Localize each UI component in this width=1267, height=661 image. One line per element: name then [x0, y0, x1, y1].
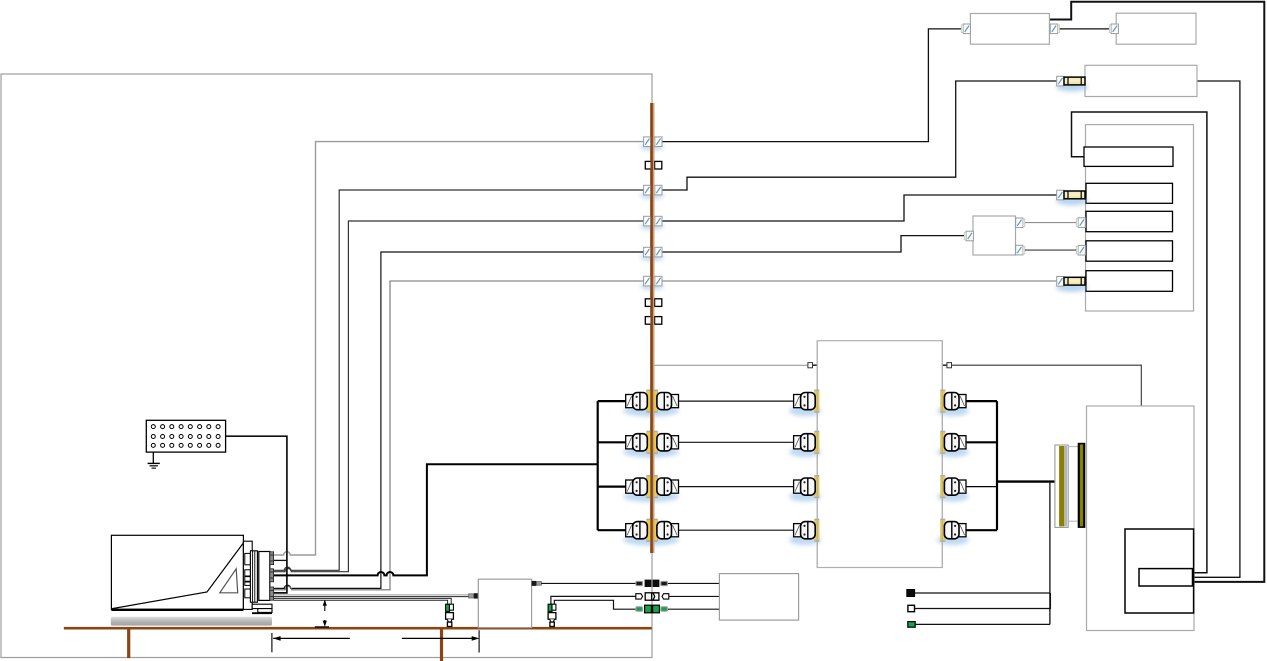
mount base foot line — [252, 612, 272, 614]
connector splitter right bottom — [1016, 245, 1025, 255]
device box D2 — [1116, 13, 1196, 44]
wire legend green — [915, 623, 1050, 625]
floor post right — [440, 630, 443, 661]
feed plug bottom — [270, 587, 274, 600]
battery right plug row4 — [937, 519, 969, 545]
cabinet inner black box — [1125, 529, 1194, 613]
connector sense right — [942, 363, 951, 368]
pump box A — [478, 579, 531, 627]
connector sense left — [808, 363, 817, 368]
wire battery row4 link — [679, 529, 793, 531]
connector D3 yellow plug — [1057, 76, 1085, 86]
connector rack row4 — [1076, 245, 1085, 255]
edge connector link lines — [1068, 447, 1078, 522]
battery box plug row4 — [789, 519, 821, 545]
wire trunk to machine thick with hops — [274, 464, 598, 575]
ground symbol — [148, 452, 160, 468]
machine base plinth — [111, 617, 272, 626]
wire rack row1 riser — [1072, 112, 1207, 573]
battery bulkhead pair row1 — [623, 390, 679, 417]
inline trio B white — [636, 593, 669, 600]
connector D1 left — [961, 24, 970, 34]
battery right plug row2 — [937, 431, 969, 457]
mount plate — [259, 552, 270, 601]
bulkhead passthrough row4 — [640, 247, 664, 261]
wire D1 to riser right top — [1049, 2, 1264, 582]
legend item black — [907, 590, 915, 597]
connector glow D3 — [1056, 83, 1088, 92]
wire battery row1 link — [679, 400, 793, 402]
battery right plug row3 — [937, 475, 969, 502]
feed plug top — [270, 552, 274, 565]
rack unit row3 — [1086, 211, 1173, 231]
wire stack2 to trio C — [554, 600, 635, 609]
wire box A to trio A — [541, 582, 635, 584]
wire right row3 tap — [967, 486, 998, 488]
wire battery row2 link — [679, 441, 793, 443]
legend item white — [908, 605, 915, 611]
wire bulkhead row5 to rack row5 gray — [660, 280, 1056, 282]
feed plug middle — [270, 569, 274, 582]
signal bundle line 4 — [274, 600, 448, 604]
connector D1 right — [1050, 24, 1059, 34]
wire trio C to box B — [668, 608, 720, 610]
signal bundle line 2 — [274, 596, 469, 598]
battery bulkhead pair row4 — [623, 519, 679, 546]
floor line — [64, 627, 652, 630]
bus taps to battery rows — [598, 401, 627, 530]
battery box plug row1 — [789, 390, 821, 417]
wire pigtail row1 junction to bus — [946, 400, 967, 402]
legend item green — [908, 622, 915, 628]
wire feeder to edge connector — [997, 480, 1062, 482]
wire legend white — [915, 593, 1051, 609]
device box D3 — [1085, 65, 1197, 96]
wire D3 right riser — [1193, 81, 1240, 577]
connector rack row5 yellow plug — [1057, 277, 1085, 287]
wire sense line right to cabinet — [952, 365, 1142, 406]
connector glow rack row5 — [1056, 283, 1088, 292]
mount base steps — [252, 604, 272, 612]
wire bulkhead row3 to rack row2 — [660, 195, 1056, 221]
device box D1 — [970, 14, 1049, 45]
wire pigtail row3 junction to bus — [946, 486, 967, 488]
connector splitter left — [964, 231, 973, 241]
cabinet terminal notch — [1139, 569, 1193, 586]
wire D1 to D2 — [1058, 28, 1110, 30]
machine bottom thick line — [111, 609, 243, 611]
bus taps right rows — [967, 401, 998, 530]
wire splitter to rack row3 gray — [1025, 222, 1076, 224]
battery bulkhead pair row2 — [623, 431, 679, 458]
wire room feed 5 left gray — [274, 281, 644, 590]
legend bus drop — [1049, 482, 1051, 625]
signal bundle line 1 gray — [274, 594, 469, 596]
bulkhead passthrough row3 — [640, 216, 664, 230]
cabinet right gray box — [1087, 406, 1195, 631]
wire terminal strip to machine — [226, 436, 287, 593]
wire bulkhead row2 to device box D3 — [660, 81, 1056, 190]
junction room gray box — [817, 341, 942, 568]
signal bundle line 3 — [274, 598, 452, 604]
wire bulkhead row1 to device box D1 — [660, 29, 961, 142]
wire top plug tie — [274, 559, 287, 561]
connector box A right — [532, 581, 542, 586]
floor post left — [127, 630, 130, 659]
bulkhead spare squares row — [645, 161, 662, 169]
wire sense line left gray — [652, 364, 808, 366]
wire room feed 4 left — [274, 252, 644, 588]
wire pigtail row4 junction to bus — [946, 529, 967, 531]
left battery bus — [597, 401, 599, 530]
battery box plug row3 — [789, 475, 821, 502]
wire room feed 3 left — [274, 221, 644, 572]
connector glow rack row2 — [1056, 197, 1088, 206]
edge connector bar 2 — [1078, 443, 1085, 527]
battery right plug row1 — [937, 390, 969, 417]
wire stack2 to trio B — [551, 596, 636, 604]
terminal strip holes — [151, 425, 220, 448]
bulkhead spare squares row c — [645, 317, 662, 325]
wire room feed 1 left gray — [274, 142, 644, 555]
battery box plug row2 — [789, 431, 821, 457]
junction box edge overlays — [817, 341, 942, 568]
rear panel blocks — [245, 553, 251, 597]
wire battery row3 link — [679, 486, 793, 488]
connector splitter right top — [1016, 218, 1025, 228]
connector D2 left — [1109, 24, 1118, 34]
wire pigtail row2 junction to bus — [946, 441, 967, 443]
rack unit row5 — [1086, 271, 1173, 292]
battery bulkhead pair row3 — [623, 475, 679, 502]
inline trio C green — [635, 605, 667, 613]
inline connector small gray — [469, 593, 479, 598]
span dimension line — [272, 630, 479, 652]
control box B — [719, 574, 798, 621]
wire trio B to box B — [669, 595, 720, 597]
wall bulkhead brown line overlay — [650, 103, 654, 553]
terminal strip panel — [146, 420, 225, 452]
wire room feed 2 left — [274, 190, 644, 570]
machine wedge lines — [112, 543, 243, 609]
inline trio A black — [635, 580, 667, 587]
bulkhead passthrough row5 — [640, 276, 664, 290]
connector rack row2 yellow plug — [1057, 190, 1085, 200]
bulkhead passthrough row2 — [640, 185, 664, 199]
machine inner triangle — [220, 569, 238, 593]
bulkhead spare squares row b — [645, 299, 662, 307]
height dimension arrows — [315, 600, 329, 627]
rack unit row2 — [1086, 183, 1173, 203]
connector rack row3 — [1076, 218, 1085, 228]
rack unit row1 — [1084, 147, 1173, 166]
machine rear panel — [243, 541, 252, 609]
wire legend black — [915, 592, 1050, 594]
rack cabinet outline — [1086, 125, 1194, 311]
splitter box — [973, 216, 1016, 255]
machine body — [111, 535, 243, 609]
room boundary big box — [1, 74, 652, 658]
wire splitter to rack row4 — [1025, 249, 1076, 251]
edge connector bar 1 — [1055, 445, 1068, 527]
lens plate stack — [250, 551, 257, 602]
bulkhead passthrough row1 — [640, 137, 664, 151]
wire trio A to box B — [668, 582, 720, 584]
right collector bus — [996, 401, 998, 530]
green drop connector 2 — [548, 604, 556, 626]
rack unit row4 — [1086, 241, 1173, 261]
wire bulkhead row4 to splitter box — [660, 236, 965, 252]
green drop connector 1 — [446, 604, 454, 626]
wall bulkhead brown line — [650, 103, 654, 553]
